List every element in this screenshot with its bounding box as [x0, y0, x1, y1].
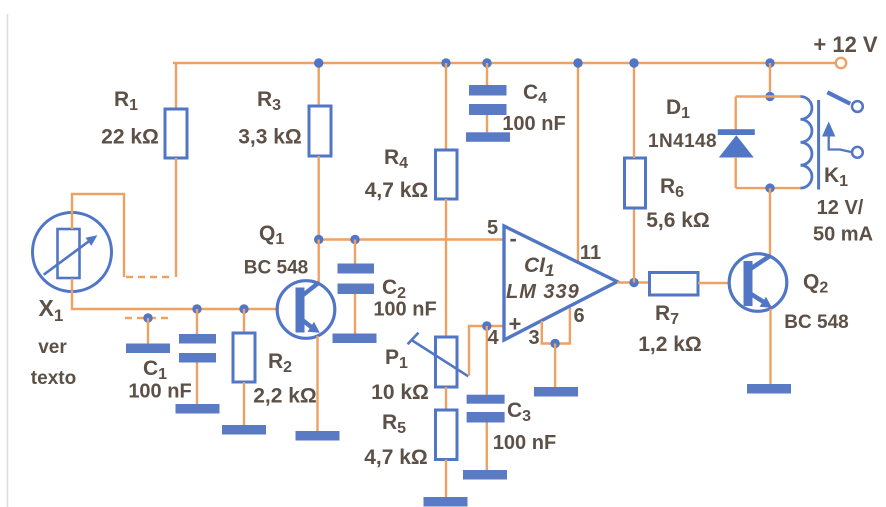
- svg-text:10 kΩ: 10 kΩ: [371, 381, 429, 404]
- node rail C4: [482, 58, 491, 67]
- wire R1 bottom: [175, 158, 177, 277]
- wire to ground: [554, 344, 556, 388]
- svg-text:50 mA: 50 mA: [813, 224, 873, 246]
- capacitor C2: [338, 264, 375, 295]
- wire R2 top: [243, 309, 245, 333]
- potentiometer P1: [436, 337, 458, 387]
- wire R1 top: [175, 63, 177, 109]
- ground under C1: [176, 404, 220, 414]
- ground under Q1: [296, 431, 340, 441]
- ground under C3: [463, 470, 507, 480]
- wire R2 bottom: [243, 382, 245, 425]
- relay arrow: [829, 136, 851, 153]
- svg-text:texto: texto: [31, 368, 76, 389]
- ground under R2: [222, 425, 266, 435]
- svg-text:4,7 kΩ: 4,7 kΩ: [365, 179, 429, 202]
- svg-text:3,3 kΩ: 3,3 kΩ: [238, 126, 302, 149]
- wire wiper to +input: [469, 326, 503, 376]
- node rail R3: [314, 58, 323, 67]
- node pin3/6: [550, 339, 559, 348]
- relay contact 2: [852, 147, 863, 158]
- ground under dashed stub: [126, 344, 170, 354]
- ground under Q2: [747, 384, 791, 394]
- wire R4 top: [445, 63, 447, 150]
- page edge line: [7, 14, 9, 507]
- node R3/Q1 collector: [314, 235, 323, 244]
- svg-text:ver: ver: [38, 337, 67, 358]
- wire Q1 emitter: [316, 336, 318, 431]
- wire diode top: [735, 97, 737, 130]
- node rail R4: [441, 58, 450, 67]
- node output: [629, 278, 638, 287]
- node C1 junction: [192, 304, 201, 313]
- svg-text:2,2 kΩ: 2,2 kΩ: [253, 385, 317, 408]
- wire dashed stub: [125, 317, 171, 319]
- ground under pins 3/6: [534, 387, 578, 397]
- node +12V terminal: [836, 58, 846, 68]
- wire Q2 emitter: [769, 309, 771, 384]
- wire relay top rung: [736, 95, 801, 97]
- wire C1 bottom: [196, 363, 198, 405]
- wire X1 bottom to Q1 base: [72, 279, 296, 310]
- wire output: [617, 281, 649, 283]
- wire P1 to R5: [445, 387, 447, 410]
- svg-text:6: 6: [573, 305, 584, 327]
- node R2 junction: [239, 304, 248, 313]
- svg-text:100 nF: 100 nF: [373, 299, 436, 321]
- svg-text:5,6 kΩ: 5,6 kΩ: [646, 209, 710, 232]
- wire Q2 collector: [769, 188, 771, 256]
- transistor Q2: [729, 254, 787, 312]
- wire C1 top: [196, 309, 198, 334]
- svg-text:BC 548: BC 548: [244, 258, 308, 279]
- resistor R7: [650, 273, 699, 296]
- wire C3 bottom: [486, 423, 488, 471]
- wire R5 bottom: [445, 460, 447, 498]
- node dashed junction: [143, 313, 152, 322]
- wire pin11: [577, 63, 579, 263]
- capacitor C4: [469, 85, 507, 115]
- wire rail to relay top: [769, 63, 771, 97]
- sensor X1: [33, 213, 112, 292]
- node rail pin11: [573, 58, 582, 67]
- diode D1: [718, 129, 755, 157]
- wire R7 to Q2 base: [698, 282, 744, 284]
- wire pin6 stub: [555, 308, 570, 344]
- wire to ground: [147, 318, 149, 344]
- svg-text:+ 12 V: + 12 V: [813, 32, 878, 57]
- ground under R5: [424, 497, 468, 507]
- svg-text:12 V/: 12 V/: [817, 197, 864, 219]
- wire diode bottom: [735, 157, 737, 188]
- svg-text:BC 548: BC 548: [784, 312, 848, 333]
- node rail relay: [765, 58, 774, 67]
- relay K1 coil: [801, 97, 812, 189]
- wire dashed link to R1: [126, 276, 174, 278]
- svg-text:5: 5: [487, 217, 498, 239]
- wire R3 bottom: [318, 156, 320, 240]
- wire C2 top: [354, 240, 356, 264]
- wire Q1 collector: [318, 240, 320, 285]
- wire C3 top: [486, 326, 488, 395]
- resistor R1: [165, 109, 187, 158]
- svg-text:+: +: [509, 312, 522, 337]
- resistor R4: [436, 150, 458, 199]
- svg-text:100 nF: 100 nF: [493, 432, 556, 454]
- wire C2 bottom: [354, 294, 356, 334]
- node relay bottom: [765, 183, 774, 192]
- wire relay bottom rung: [736, 187, 801, 189]
- resistor R2: [233, 333, 255, 382]
- relay switch lever: [827, 92, 850, 104]
- capacitor C1: [179, 334, 216, 363]
- resistor R3: [309, 106, 331, 156]
- node +input: [482, 321, 491, 330]
- capacitor C3: [467, 395, 505, 423]
- node rail R6: [629, 58, 638, 67]
- wire R6 top: [633, 63, 635, 158]
- wire top +12V rail: [173, 62, 836, 64]
- wire X1 top loop: [72, 194, 124, 277]
- svg-text:3: 3: [528, 327, 539, 349]
- op-amp CI1: [504, 226, 617, 340]
- wire R4 to P1: [445, 199, 447, 337]
- node relay top: [765, 92, 774, 101]
- wire R3 top: [318, 63, 320, 106]
- svg-text:1,2 kΩ: 1,2 kΩ: [638, 333, 702, 356]
- resistor R6: [625, 158, 646, 208]
- resistor R5: [436, 410, 458, 460]
- svg-text:LM 339: LM 339: [506, 281, 580, 303]
- transistor Q1: [277, 281, 335, 339]
- svg-text:4,7 kΩ: 4,7 kΩ: [364, 446, 428, 469]
- relay core line: [817, 100, 820, 190]
- svg-text:100 nF: 100 nF: [502, 113, 565, 135]
- svg-text:22 kΩ: 22 kΩ: [101, 126, 159, 149]
- ground under C4: [466, 132, 510, 142]
- svg-text:-: -: [510, 226, 517, 251]
- svg-text:100 nF: 100 nF: [128, 381, 191, 403]
- svg-text:4: 4: [487, 327, 499, 349]
- svg-text:11: 11: [580, 242, 601, 264]
- svg-text:1N4148: 1N4148: [648, 131, 717, 152]
- node C2 top: [350, 235, 359, 244]
- ground under C2: [333, 334, 377, 344]
- wire C4 bottom: [486, 115, 488, 132]
- relay contact 1: [852, 101, 863, 112]
- wire pin3 stub: [542, 321, 555, 344]
- wire pin5 net: [319, 238, 503, 240]
- wire R6 bottom: [633, 208, 635, 283]
- wire C4 top: [486, 63, 488, 85]
